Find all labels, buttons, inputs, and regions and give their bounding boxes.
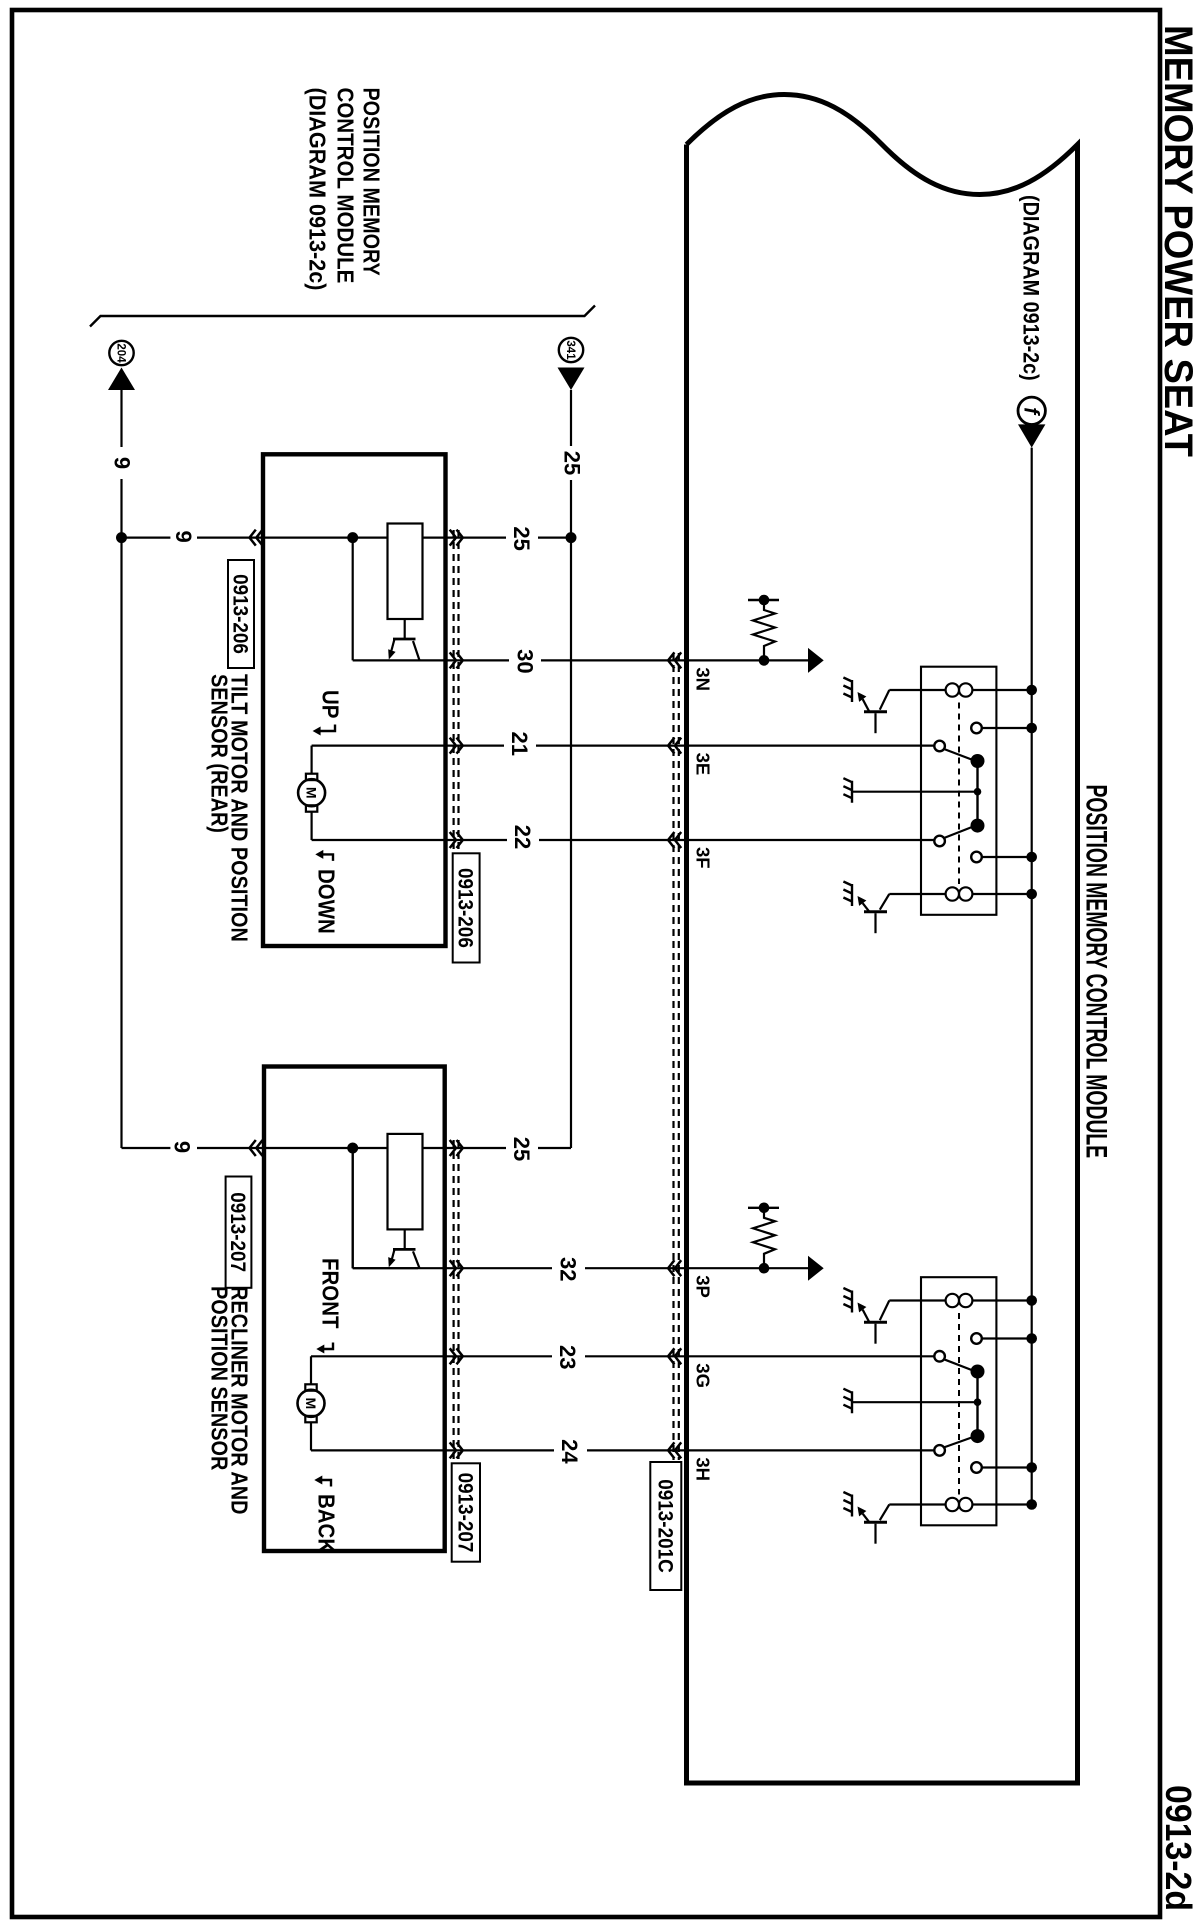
wire 22 / 3F xyxy=(312,839,935,841)
sensor box 2 RECLINER MOTOR xyxy=(264,1067,445,1552)
wire 21 / 3E xyxy=(312,744,935,746)
potentiometer wiper upper diagonal sensor box 1 xyxy=(413,641,420,660)
potentiometer wiper bar sensor box 1 xyxy=(393,638,416,641)
junction dot pot sensor box 2 xyxy=(347,1143,358,1154)
potentiometer wiper bar sensor box 2 xyxy=(393,1248,416,1251)
connector label box 0913-207 (box2 harness) xyxy=(452,1463,480,1561)
relay 2 ground tap wire xyxy=(853,1401,978,1403)
svg-text:9: 9 xyxy=(110,457,135,469)
relay 1 switch arm left xyxy=(944,749,976,761)
relay 2 coil right xyxy=(972,1503,1031,1505)
ground relay 1 left transistor xyxy=(843,678,852,703)
relay 1 NO contact left xyxy=(971,723,982,734)
connector chevrons module pin 3N xyxy=(668,652,681,668)
potentiometer wiper lead sensor box 1 xyxy=(404,619,406,639)
connector chevrons module pin 3F xyxy=(668,832,681,848)
relay 2 coil bus dot right xyxy=(1026,1499,1037,1510)
svg-text:FRONT: FRONT xyxy=(317,1258,343,1329)
transistor relay 2 right base bar xyxy=(864,1521,887,1524)
relay 2 link dot left xyxy=(971,1365,985,1379)
ground relay 2 left transistor xyxy=(843,1288,852,1313)
relay 1 coil right xyxy=(972,893,1031,895)
relay 1 ground tap wire xyxy=(853,791,978,793)
junction dot rail9-box1 xyxy=(116,532,127,543)
relay 2 NO contact bus dot left xyxy=(1026,1333,1037,1344)
svg-text:3E: 3E xyxy=(693,753,714,776)
relay 2 switch arm right xyxy=(944,1436,976,1447)
svg-text:0913-207: 0913-207 xyxy=(453,1473,476,1553)
relay 2 rect xyxy=(921,1277,996,1525)
relay 2 coil bus dot left xyxy=(1026,1295,1037,1306)
motor M sensor box 2 xyxy=(298,1390,325,1417)
svg-text:(DIAGRAM 0913-2c): (DIAGRAM 0913-2c) xyxy=(1018,195,1042,381)
relay 1 link dot right xyxy=(971,819,985,833)
svg-text:341: 341 xyxy=(564,340,576,360)
connector label box 0913-207 (box2 feed) xyxy=(226,1177,252,1288)
transistor relay 1 left collector xyxy=(880,690,890,710)
relay 2 coil left xyxy=(972,1299,1031,1301)
connector chevrons module pin 3G xyxy=(668,1348,681,1364)
connector circle f xyxy=(1018,397,1045,424)
connector arrow f (points right) xyxy=(1018,424,1045,447)
relay 1 coil bus dot right xyxy=(1026,889,1037,900)
label FRONT with arrow xyxy=(317,1258,343,1329)
connector chevrons wire 22 box1 xyxy=(450,832,463,848)
connector chevrons module pin 3E xyxy=(668,738,681,754)
transistor relay 1 left base bar xyxy=(864,710,887,713)
svg-text:0913-206: 0913-206 xyxy=(453,868,476,948)
transistor relay 1 left emitter with arrow xyxy=(863,699,870,712)
junction dot resistor-wire group 3N xyxy=(759,655,770,666)
potentiometer wiper arrow sensor box 1 xyxy=(391,639,394,651)
svg-text:21: 21 xyxy=(507,732,532,756)
potentiometer wiper lead sensor box 2 xyxy=(404,1229,406,1249)
connector circle 341 xyxy=(559,338,583,362)
junction dot supply stub group 3P xyxy=(759,1203,770,1214)
wire rail 25 from connector 341 xyxy=(570,390,572,1148)
svg-text:0913-201C: 0913-201C xyxy=(653,1479,676,1572)
arrow up wire group 3P xyxy=(808,1256,824,1281)
connector label box 0913-206 (box1 harness) xyxy=(453,853,480,962)
relay 2 common contact right xyxy=(934,1445,945,1456)
connector chevrons wire 32 box2 xyxy=(450,1260,463,1276)
relay 1 NO contact bus dot right xyxy=(1026,852,1037,863)
svg-text:30: 30 xyxy=(512,649,537,673)
wire 9 feed sensor box 1 xyxy=(122,536,264,538)
junction dot pot sensor box 1 xyxy=(347,532,358,543)
relay 2 switch arm left xyxy=(944,1359,976,1371)
potentiometer rect sensor box 2 xyxy=(388,1134,423,1230)
motor M sensor box 1 xyxy=(298,779,325,806)
svg-text:22: 22 xyxy=(510,825,535,849)
svg-text:25: 25 xyxy=(509,1137,534,1161)
svg-text:DOWN: DOWN xyxy=(313,869,339,934)
potentiometer rect sensor box 1 xyxy=(388,524,423,620)
title MEMORY POWER SEAT xyxy=(1156,25,1199,457)
wire 25 feed through sensor box 2 xyxy=(263,1147,571,1149)
potentiometer wiper arrow sensor box 2 xyxy=(391,1249,394,1261)
label BACK with arrow xyxy=(321,1480,331,1487)
ground relay 2 right transistor xyxy=(843,1492,852,1517)
relay 2 common contact left xyxy=(934,1351,945,1362)
wire motor2 left corner xyxy=(310,1356,312,1384)
connector chevrons wire 9 box1 feed xyxy=(250,530,263,546)
relay 2 mid ground xyxy=(843,1389,852,1414)
svg-text:3H: 3H xyxy=(693,1457,714,1481)
svg-text:3F: 3F xyxy=(693,847,714,869)
relay 2 link dot right xyxy=(971,1429,985,1443)
relay 2 ground tap dot xyxy=(974,1398,982,1406)
transistor relay 2 left collector xyxy=(880,1301,890,1321)
branch wire junction to wiper line sensor box 1 xyxy=(353,538,418,661)
harness dashed pair box1 xyxy=(454,530,459,853)
label POSITION MEMORY CONTROL MODULE (DIAGRAM 0913-2c) 3-line block xyxy=(305,88,384,291)
connector arrow 204 (points left) xyxy=(108,368,135,391)
connector chevrons wire 25 box2 xyxy=(450,1140,463,1156)
label DOWN with arrow xyxy=(322,854,333,861)
svg-text:POSITION MEMORY CONTROL MODULE: POSITION MEMORY CONTROL MODULE xyxy=(1079,785,1112,1159)
relay 1 mid ground xyxy=(843,778,852,803)
svg-text:(DIAGRAM 0913-2c): (DIAGRAM 0913-2c) xyxy=(305,88,331,291)
connector arrow 341 (points right) xyxy=(558,368,585,391)
relay 1 common contact right xyxy=(934,836,945,847)
sensor box 1 TILT MOTOR xyxy=(263,454,446,946)
module label POSITION MEMORY CONTROL MODULE xyxy=(1079,785,1112,1159)
transistor relay 1 right emitter with arrow xyxy=(863,903,870,912)
arrow up wire group 3N xyxy=(808,648,824,673)
supply stub bar group 3N xyxy=(748,599,779,601)
junction dot supply stub group 3N xyxy=(759,595,770,606)
harness dashed pair box2 xyxy=(454,1140,459,1463)
svg-text:9: 9 xyxy=(171,530,196,542)
svg-text:32: 32 xyxy=(555,1257,580,1281)
relay 1 armature dashed link xyxy=(958,703,960,885)
relay 1 rect xyxy=(921,667,996,915)
harness dashed pair module connector xyxy=(674,653,679,1460)
connector chevrons wire 9 box2 feed xyxy=(250,1140,263,1156)
svg-text:25: 25 xyxy=(509,526,534,550)
svg-text:0913-2d: 0913-2d xyxy=(1158,1785,1198,1911)
ground relay 1 right transistor xyxy=(843,882,852,907)
wire 9 feed sensor box 2 xyxy=(122,1147,264,1149)
svg-text:9: 9 xyxy=(170,1141,195,1153)
relay 2 armature dashed link xyxy=(958,1313,960,1495)
svg-text:3P: 3P xyxy=(693,1275,714,1298)
wire motor1 right corner xyxy=(310,812,312,840)
resistor group 3N xyxy=(753,600,775,660)
transistor relay 2 left base lead xyxy=(874,1324,876,1344)
connector chevrons wire 30 box1 xyxy=(450,652,463,668)
transistor relay 1 right base bar xyxy=(864,910,887,913)
relay 2 NO contact left xyxy=(971,1333,982,1344)
relay 2 NO contact bus dot right xyxy=(1026,1462,1037,1473)
svg-text:BACK: BACK xyxy=(313,1494,339,1553)
relay 1 ground tap dot xyxy=(974,788,982,796)
transistor relay 1 right base lead xyxy=(874,913,876,933)
svg-text:CONTROL MODULE: CONTROL MODULE xyxy=(332,88,358,284)
connector chevrons wire 21 box1 xyxy=(450,738,463,754)
svg-text:24: 24 xyxy=(557,1439,582,1464)
relay 1 NO contact right xyxy=(971,852,982,863)
relay 2 NO contact right xyxy=(971,1462,982,1473)
wire rail 9 from connector 204 xyxy=(120,390,122,1148)
relay 1 link dot left xyxy=(971,754,985,768)
branch wire junction to wiper line sensor box 2 xyxy=(353,1148,418,1268)
connector chevrons module pin 3H xyxy=(668,1442,681,1458)
svg-text:POSITION MEMORY: POSITION MEMORY xyxy=(358,88,384,276)
wire motor2 right corner xyxy=(310,1423,312,1451)
connector chevrons wire 23 box2 xyxy=(450,1348,463,1364)
relay 1 link bar xyxy=(976,761,978,826)
svg-text:M: M xyxy=(304,787,320,799)
page number 0913-2d xyxy=(1158,1785,1198,1911)
svg-text:0913-207: 0913-207 xyxy=(226,1192,249,1272)
connector chevrons wire 24 box2 xyxy=(450,1442,463,1458)
junction dot resistor-wire group 3P xyxy=(759,1263,770,1274)
svg-text:UP: UP xyxy=(317,690,343,718)
svg-text:M: M xyxy=(303,1397,319,1409)
wire bus from f xyxy=(1031,448,1033,1505)
svg-text:f: f xyxy=(1020,407,1043,416)
svg-text:MEMORY POWER SEAT: MEMORY POWER SEAT xyxy=(1156,25,1199,457)
transistor relay 2 left emitter with arrow xyxy=(863,1310,870,1323)
svg-text:0913-206: 0913-206 xyxy=(228,574,251,654)
resistor group 3P xyxy=(753,1208,775,1268)
relay 1 common contact left xyxy=(934,741,945,752)
svg-text:3G: 3G xyxy=(693,1363,714,1388)
transistor relay 2 left base bar xyxy=(864,1321,887,1324)
svg-text:25: 25 xyxy=(560,451,585,475)
transistor relay 1 right collector xyxy=(880,894,890,910)
wire 23 / 3G xyxy=(311,1355,934,1357)
connector chevrons wire 25 box1 xyxy=(450,530,463,546)
module box (POSITION MEMORY CONTROL MODULE) with wavy continuation edge xyxy=(687,95,1078,1784)
wire 24 / 3H xyxy=(311,1449,934,1451)
transistor relay 2 right base lead xyxy=(874,1524,876,1544)
relay 1 coil bus dot left xyxy=(1026,685,1037,696)
svg-text:SENSOR (REAR): SENSOR (REAR) xyxy=(206,674,232,833)
label RECLINER MOTOR AND POSITION SENSOR xyxy=(206,1286,252,1514)
wire motor1 left corner xyxy=(310,746,312,774)
wire 25 feed through sensor box 1 xyxy=(263,536,571,538)
relay 1 NO contact bus dot left xyxy=(1026,723,1037,734)
svg-text:3N: 3N xyxy=(693,667,714,691)
transistor relay 2 right emitter with arrow xyxy=(863,1514,870,1523)
relay 2 link bar xyxy=(976,1372,978,1437)
label (DIAGRAM 0913-2c) inside module xyxy=(1018,195,1042,381)
connector circle 204 xyxy=(109,341,133,365)
transistor relay 1 left base lead xyxy=(874,713,876,733)
svg-text:204: 204 xyxy=(115,343,127,363)
svg-text:23: 23 xyxy=(555,1345,580,1369)
label UP with arrow xyxy=(317,690,343,718)
connector label box 0913-206 (box1 feed) xyxy=(228,560,254,668)
connector chevrons module pin 3P xyxy=(668,1260,681,1276)
potentiometer wiper upper diagonal sensor box 2 xyxy=(413,1251,420,1268)
junction dot rail25-box1 xyxy=(566,532,577,543)
wire 32 / 3P xyxy=(353,1148,808,1268)
bracket grouping connectors xyxy=(90,306,595,327)
svg-text:POSITION SENSOR: POSITION SENSOR xyxy=(206,1286,232,1471)
transistor relay 2 right collector xyxy=(880,1505,890,1521)
relay 1 coil left xyxy=(972,689,1031,691)
connector label box 0913-201C (module) xyxy=(650,1462,681,1590)
supply stub bar group 3P xyxy=(748,1207,779,1209)
wire 30 / 3N xyxy=(418,659,808,661)
relay 1 switch arm right xyxy=(944,826,976,838)
label TILT MOTOR AND POSITION SENSOR (REAR) xyxy=(206,674,252,942)
